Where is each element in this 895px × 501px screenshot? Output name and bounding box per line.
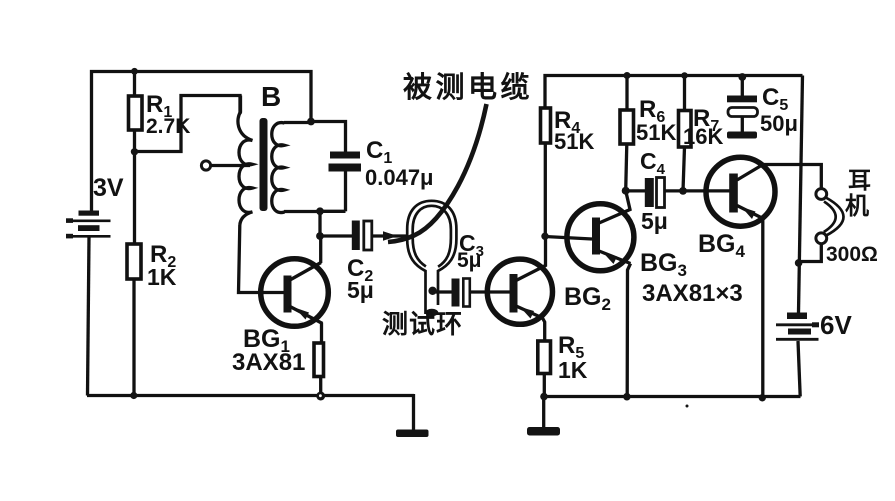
svg-text:6V: 6V: [820, 310, 852, 340]
svg-text:耳: 耳: [848, 167, 871, 193]
svg-text:5μ: 5μ: [641, 208, 668, 234]
svg-text:机: 机: [845, 193, 869, 220]
svg-text:5μ: 5μ: [347, 277, 374, 303]
svg-text:3AX81: 3AX81: [232, 349, 305, 376]
svg-text:300Ω: 300Ω: [826, 243, 878, 266]
svg-text:3V: 3V: [93, 174, 124, 202]
svg-text:被测电缆: 被测电缆: [403, 71, 533, 104]
svg-text:B: B: [261, 81, 281, 112]
svg-text:1K: 1K: [147, 264, 177, 290]
svg-text:5μ: 5μ: [457, 249, 482, 272]
svg-text:2.7K: 2.7K: [146, 115, 190, 138]
svg-text:3AX81×3: 3AX81×3: [642, 280, 743, 307]
svg-text:16K: 16K: [683, 124, 723, 149]
svg-text:51K: 51K: [636, 120, 676, 145]
svg-text:1K: 1K: [558, 357, 588, 383]
svg-text:51K: 51K: [554, 129, 594, 154]
svg-text:50μ: 50μ: [760, 111, 798, 136]
svg-text:测试环: 测试环: [382, 309, 463, 339]
svg-text:0.047μ: 0.047μ: [365, 165, 434, 190]
